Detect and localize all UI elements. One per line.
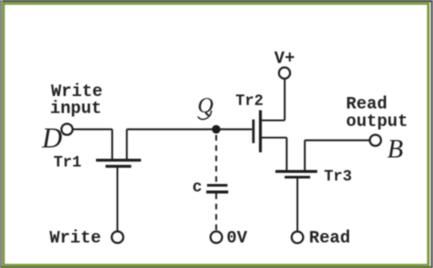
svg-text:c: c: [192, 178, 202, 197]
node D terminal circle: [61, 124, 72, 135]
transistor Tr2 gate bar: [252, 119, 255, 143]
svg-text:Read: Read: [309, 230, 350, 249]
wire Tr2 source to Tr3 drain: [260, 138, 286, 170]
svg-text:B: B: [387, 134, 403, 163]
wire Tr3 drain to read output node B: [305, 140, 370, 170]
svg-text:D: D: [41, 123, 62, 154]
wire Tr1 gate to Write terminal: [116, 167, 118, 231]
svg-text:Write: Write: [50, 230, 102, 249]
svg-text:output: output: [346, 113, 408, 132]
wire Tr1 source to node Q line: [127, 129, 252, 159]
svg-text:input: input: [50, 100, 102, 119]
wire dashed Q to capacitor C: [215, 135, 217, 184]
wire D to Tr1 drain: [73, 129, 112, 159]
terminal Write circle: [112, 231, 124, 243]
svg-text:0V: 0V: [227, 230, 248, 249]
capacitor C top plate: [207, 184, 228, 187]
svg-text:Tr1: Tr1: [54, 154, 82, 172]
transistor Tr3 channel bar: [275, 170, 317, 173]
svg-text:Tr2: Tr2: [236, 92, 264, 110]
node Q junction dot: [212, 125, 221, 134]
terminal V+ circle: [279, 67, 290, 78]
node B terminal circle: [370, 135, 381, 146]
svg-text:Read: Read: [346, 95, 387, 114]
terminal 0V circle: [211, 231, 223, 243]
transistor Tr2 channel bar: [259, 110, 262, 152]
wire dashed capacitor C to 0V terminal: [215, 194, 217, 232]
label node Q tail swash: [198, 111, 212, 120]
wire Tr2 drain to V+ terminal: [260, 79, 284, 121]
terminal Read circle: [292, 232, 304, 244]
capacitor C bottom plate: [206, 191, 228, 194]
transistor Tr1 channel bar: [96, 159, 141, 162]
svg-text:Tr3: Tr3: [324, 167, 352, 185]
svg-text:Write: Write: [51, 83, 103, 102]
transistor Tr1 gate bar: [106, 165, 132, 168]
svg-text:V+: V+: [274, 50, 295, 69]
wire Tr3 gate to Read terminal: [296, 178, 298, 231]
transistor Tr3 gate bar: [285, 176, 311, 179]
